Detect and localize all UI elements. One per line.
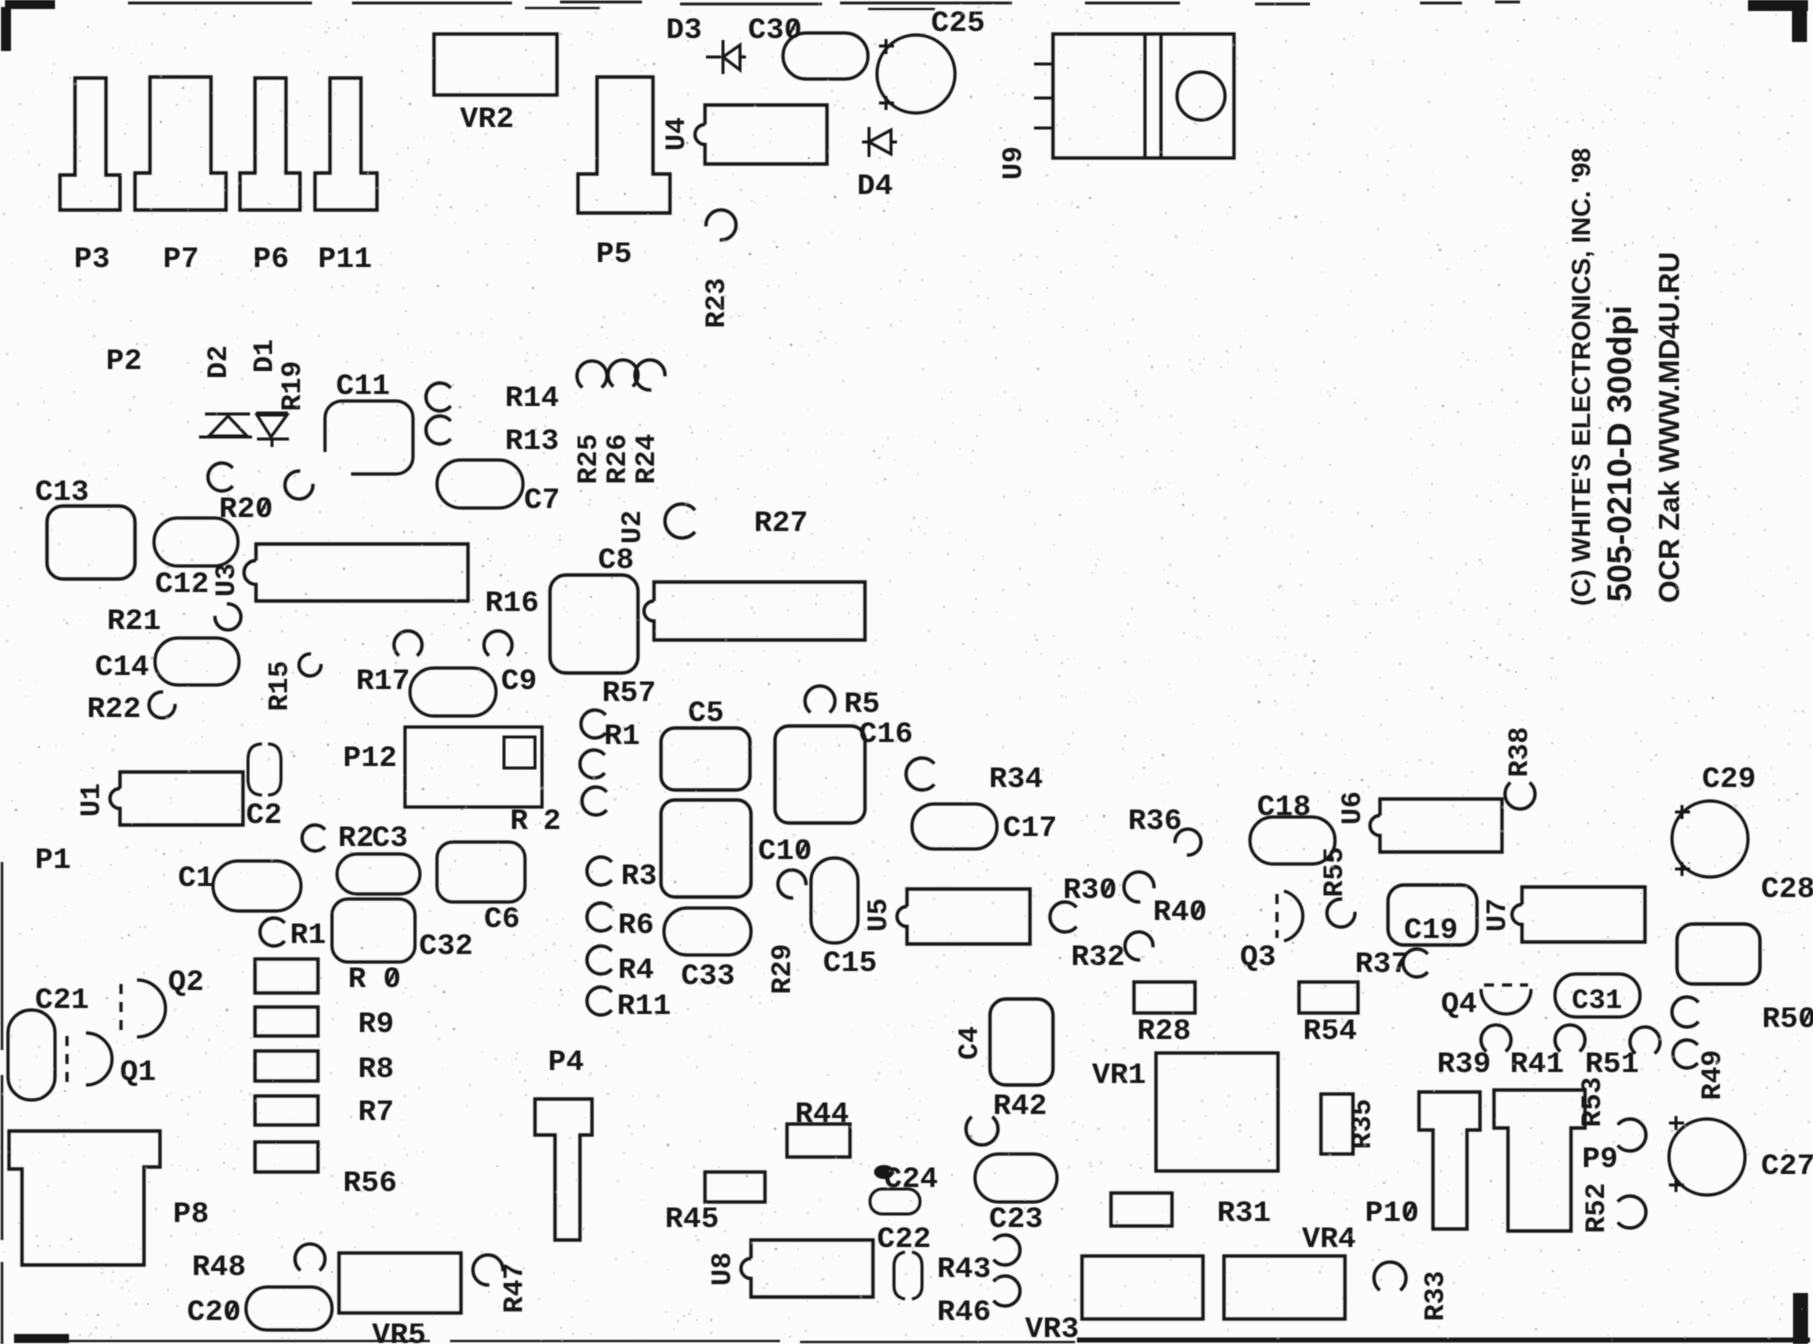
pad R51	[1630, 1027, 1660, 1054]
svg-text:(C) WHITE'S ELECTRONICS, INC.: (C) WHITE'S ELECTRONICS, INC. '98	[1566, 148, 1596, 606]
capacitor C32	[332, 899, 415, 962]
pad R3	[587, 857, 612, 885]
capacitor C15	[811, 858, 858, 943]
svg-text:R43: R43	[937, 1253, 991, 1287]
pad R17 a	[394, 631, 422, 656]
svg-text:R17: R17	[356, 665, 410, 699]
ic U8	[741, 1240, 873, 1297]
svg-text:R1: R1	[604, 720, 640, 754]
svg-text:R53: R53	[1578, 1077, 1609, 1127]
svg-text:R22: R22	[87, 693, 141, 727]
pad R37	[1403, 949, 1428, 977]
pad R57	[581, 710, 606, 738]
pad R6	[587, 903, 612, 931]
svg-text:R44: R44	[795, 1098, 849, 1132]
svg-text:C3: C3	[372, 822, 408, 856]
svg-text:C20: C20	[187, 1296, 241, 1330]
svg-text:P12: P12	[343, 742, 397, 776]
svg-text:Q4: Q4	[1441, 988, 1477, 1022]
pad R43	[994, 1235, 1021, 1265]
svg-text:OCR Zak WWW.MD4U.RU: OCR Zak WWW.MD4U.RU	[1654, 252, 1686, 603]
svg-text:Q2: Q2	[168, 966, 204, 1000]
svg-text:C29: C29	[1702, 763, 1756, 797]
capacitor C7	[437, 460, 523, 508]
svg-text:VR4: VR4	[1302, 1223, 1356, 1257]
svg-text:C1: C1	[178, 862, 214, 896]
svg-text:R35: R35	[1348, 1099, 1379, 1149]
pad R41	[1555, 1025, 1585, 1052]
diode D2	[199, 414, 252, 437]
svg-text:R13: R13	[505, 425, 559, 459]
svg-text:R34: R34	[989, 763, 1043, 797]
connector P11	[315, 78, 377, 210]
trimmer VR2	[434, 34, 557, 95]
pad b	[582, 787, 607, 815]
connector P9	[1494, 1090, 1585, 1231]
svg-text:C32: C32	[419, 930, 473, 964]
resistor R7	[255, 1096, 318, 1125]
svg-text:U2: U2	[618, 510, 649, 544]
capacitor C20	[246, 1287, 332, 1330]
resistor R54	[1299, 982, 1358, 1013]
svg-text:R57: R57	[602, 677, 656, 711]
capacitor C9	[410, 668, 496, 716]
pad R33	[1374, 1262, 1406, 1290]
svg-text:R6: R6	[618, 909, 654, 943]
svg-text:R23: R23	[702, 278, 733, 328]
svg-text:D2: D2	[204, 345, 235, 379]
svg-text:R41: R41	[1510, 1048, 1564, 1082]
pad R30 b	[1050, 902, 1077, 932]
scan corner mark bottom-left	[14, 1334, 69, 1343]
pad R47	[473, 1255, 503, 1285]
capacitor C19	[1388, 885, 1477, 945]
capacitor C33	[664, 908, 751, 955]
svg-text:P7: P7	[163, 243, 199, 277]
capacitor C4	[990, 999, 1053, 1085]
svg-text:C16: C16	[859, 718, 913, 752]
svg-text:C8: C8	[598, 544, 634, 578]
svg-text:505-0210-D 300dpi: 505-0210-D 300dpi	[1601, 305, 1639, 602]
svg-text:R33: R33	[1421, 1271, 1452, 1321]
trimmer VR5	[339, 1253, 461, 1313]
svg-text:C30: C30	[748, 14, 802, 48]
pad R48	[295, 1244, 325, 1271]
svg-text:R25: R25	[574, 434, 605, 484]
resistor R45	[705, 1172, 765, 1202]
svg-text:R1: R1	[290, 919, 326, 953]
svg-text:U8: U8	[708, 1252, 739, 1286]
capacitor C3	[337, 854, 420, 894]
pad R46	[994, 1276, 1021, 1306]
pad P9	[1618, 1119, 1646, 1151]
svg-text:R56: R56	[343, 1167, 397, 1201]
svg-text:R29: R29	[768, 944, 799, 994]
svg-text:R7: R7	[358, 1096, 394, 1130]
diode D3	[706, 40, 746, 74]
capacitor C28	[1677, 924, 1760, 984]
svg-text:C15: C15	[823, 947, 877, 981]
capacitor C10	[661, 800, 751, 897]
svg-text:Q3: Q3	[1240, 941, 1276, 975]
resistor R28	[1134, 982, 1195, 1013]
pad R5	[805, 686, 835, 713]
pad R22	[149, 692, 175, 718]
svg-text:R27: R27	[754, 507, 808, 541]
svg-text:U7: U7	[1483, 898, 1514, 932]
capacitor C30	[783, 33, 868, 79]
svg-text:C7: C7	[524, 484, 560, 518]
svg-text:R5: R5	[844, 688, 880, 722]
transistor Q1	[86, 1033, 112, 1085]
capacitor C16	[775, 726, 865, 823]
scan top edge artifact line	[128, 2, 1520, 4]
resistor R8	[255, 1051, 318, 1081]
svg-text:R26: R26	[603, 434, 634, 484]
resistor R9	[255, 1007, 318, 1036]
svg-text:R52: R52	[1582, 1183, 1613, 1233]
svg-text:Q1: Q1	[120, 1056, 156, 1090]
svg-text:U4: U4	[662, 117, 693, 151]
svg-text:C11: C11	[336, 370, 390, 404]
svg-text:C9: C9	[501, 665, 537, 699]
pad R14 c	[635, 360, 665, 390]
scan left edge artifact line	[1, 862, 4, 1344]
connector P6	[240, 78, 300, 210]
svg-text:R46: R46	[937, 1296, 991, 1330]
pad R39	[1481, 1025, 1511, 1052]
svg-text:VR5: VR5	[372, 1319, 426, 1344]
svg-text:R42: R42	[993, 1090, 1047, 1124]
capacitor C23	[975, 1154, 1057, 1202]
ic U3	[244, 544, 468, 601]
op-amp U1	[110, 772, 243, 825]
pad R36	[1175, 829, 1201, 855]
svg-text:U5: U5	[864, 898, 895, 932]
capacitor C1	[213, 861, 301, 911]
pad R4	[587, 946, 612, 974]
svg-text:R15: R15	[265, 661, 296, 711]
svg-text:R14: R14	[505, 382, 559, 416]
svg-text:C4: C4	[955, 1026, 986, 1060]
capacitor C14	[155, 638, 239, 685]
svg-text:U6: U6	[1338, 791, 1369, 825]
resistor R10	[255, 959, 318, 993]
svg-text:R8: R8	[358, 1053, 394, 1087]
svg-text:P4: P4	[548, 1046, 584, 1080]
pad R17 b	[484, 631, 512, 656]
pad R52	[1618, 1196, 1646, 1228]
svg-text:D3: D3	[666, 14, 702, 48]
pad R15	[299, 654, 321, 676]
svg-text:C5: C5	[688, 697, 724, 731]
svg-text:D4: D4	[857, 170, 893, 204]
svg-text:U1: U1	[77, 783, 108, 817]
svg-text:R4: R4	[618, 954, 654, 988]
capacitor C25	[877, 35, 955, 113]
pad R49	[1673, 1040, 1698, 1068]
capacitor C21	[8, 1010, 55, 1100]
svg-text:P5: P5	[596, 238, 632, 272]
pad R20 a	[208, 463, 233, 491]
svg-text:2: 2	[543, 805, 561, 839]
svg-text:R2: R2	[338, 822, 374, 856]
scan corner mark top-left	[5, 0, 55, 9]
pad R2	[302, 825, 325, 851]
svg-text:C14: C14	[95, 651, 149, 685]
svg-text:R11: R11	[617, 990, 671, 1024]
capacitor C24	[870, 1189, 920, 1214]
regulator VR3	[1082, 1256, 1203, 1319]
diode D4	[862, 127, 897, 157]
capacitor C17	[912, 804, 997, 849]
regulator U9	[1053, 34, 1234, 158]
transistor Q4	[1481, 989, 1531, 1014]
capacitor C29	[1672, 801, 1748, 877]
scan bottom edge artifact line	[20, 1341, 1075, 1342]
svg-text:R39: R39	[1437, 1048, 1491, 1082]
regulator VR1	[1156, 1053, 1278, 1171]
svg-text:R49: R49	[1698, 1050, 1729, 1100]
svg-text:R40: R40	[1153, 896, 1207, 930]
pad R13 b	[426, 416, 451, 444]
svg-text:C12: C12	[155, 568, 209, 602]
capacitor C6	[437, 842, 525, 902]
resistor R44	[787, 1124, 850, 1157]
svg-text:R36: R36	[1128, 805, 1182, 839]
pad R55	[1327, 899, 1355, 927]
svg-text:C2: C2	[246, 799, 282, 833]
connector P4	[535, 1099, 592, 1240]
svg-text:R32: R32	[1071, 941, 1125, 975]
connector P7	[135, 77, 226, 210]
transistor Q2	[137, 980, 165, 1037]
svg-text:R: R	[348, 963, 366, 997]
svg-text:C31: C31	[1572, 986, 1622, 1017]
svg-text:R31: R31	[1217, 1197, 1271, 1231]
pad R30 a	[1124, 872, 1154, 902]
svg-text:R38: R38	[1505, 727, 1536, 777]
connector P8	[9, 1131, 160, 1265]
capacitor C18	[1250, 817, 1335, 864]
scan corner mark bottom-right	[1793, 1293, 1808, 1344]
svg-text:P11: P11	[318, 243, 372, 277]
pad R14 b	[608, 360, 638, 387]
svg-text:D1: D1	[250, 339, 281, 373]
svg-text:P9: P9	[1582, 1143, 1618, 1177]
svg-text:C25: C25	[931, 7, 985, 41]
svg-text:VR1: VR1	[1092, 1059, 1146, 1093]
pad R20 b	[285, 471, 313, 499]
diode D1	[256, 413, 289, 447]
resistor R31 body	[1111, 1193, 1172, 1226]
capacitor C2	[248, 744, 281, 795]
svg-text:R28: R28	[1137, 1015, 1191, 1049]
pad R38	[1505, 783, 1535, 810]
pad R23	[706, 210, 736, 240]
pad U2	[665, 504, 695, 538]
resistor R16 body	[550, 575, 638, 673]
svg-text:U3: U3	[212, 563, 243, 597]
svg-text:P1: P1	[35, 844, 71, 878]
pad R1	[260, 918, 285, 946]
connector P12	[405, 727, 542, 807]
ic U5	[897, 889, 1030, 944]
svg-text:R3: R3	[621, 860, 657, 894]
svg-text:P8: P8	[173, 1198, 209, 1232]
svg-text:VR2: VR2	[460, 103, 514, 137]
pad R50	[1672, 997, 1699, 1027]
svg-text:C17: C17	[1003, 812, 1057, 846]
svg-text:VR3: VR3	[1025, 1313, 1079, 1344]
capacitor C13	[47, 506, 135, 579]
ic U6	[1370, 799, 1502, 852]
resistor R35	[1321, 1094, 1353, 1154]
ic U2	[644, 582, 865, 640]
svg-text:U9: U9	[999, 146, 1030, 180]
capacitor C12	[154, 518, 238, 566]
svg-text:R21: R21	[107, 605, 161, 639]
pad R32	[1125, 932, 1153, 960]
svg-text:R: R	[510, 805, 528, 839]
pad a	[580, 750, 605, 778]
svg-text:C23: C23	[989, 1203, 1043, 1237]
transistor Q3	[1284, 891, 1303, 941]
scan corner mark top-right	[1748, 0, 1808, 11]
svg-text:C6: C6	[484, 903, 520, 937]
svg-text:C33: C33	[681, 960, 735, 994]
pad R11	[587, 987, 612, 1015]
capacitor C5	[661, 728, 750, 790]
regulator VR4	[1224, 1256, 1345, 1319]
svg-text:P2: P2	[106, 345, 142, 379]
svg-text:R37: R37	[1355, 948, 1409, 982]
capacitor C31	[1555, 974, 1640, 1017]
svg-text:R16: R16	[485, 587, 539, 621]
pad R34	[906, 758, 934, 790]
capacitor C11	[325, 401, 413, 474]
capacitor C27	[1669, 1119, 1745, 1195]
connector P5	[578, 77, 670, 213]
ic U7	[1512, 887, 1645, 942]
svg-text:R45: R45	[665, 1203, 719, 1237]
pad R29	[778, 870, 806, 898]
capacitor C22	[894, 1252, 922, 1299]
svg-text:R48: R48	[192, 1251, 246, 1285]
svg-text:R55: R55	[1320, 847, 1351, 897]
op-amp U4	[695, 105, 827, 164]
svg-text:C27: C27	[1761, 1150, 1813, 1184]
resistor R56	[255, 1142, 318, 1172]
svg-text:R24: R24	[632, 434, 663, 484]
svg-text:R19: R19	[278, 361, 309, 411]
svg-text:C19: C19	[1404, 914, 1458, 948]
svg-text:P10: P10	[1365, 1197, 1419, 1231]
pad R42	[966, 1117, 998, 1145]
connector P10	[1419, 1092, 1480, 1229]
pad R14 a	[577, 361, 607, 388]
svg-text:R47: R47	[500, 1263, 531, 1313]
svg-text:P3: P3	[74, 243, 110, 277]
pad R13 a	[426, 383, 451, 411]
svg-text:C10: C10	[758, 835, 812, 869]
svg-text:R9: R9	[358, 1008, 394, 1042]
pad R21	[215, 604, 241, 630]
connector P3	[60, 78, 120, 210]
svg-text:0: 0	[383, 963, 401, 997]
